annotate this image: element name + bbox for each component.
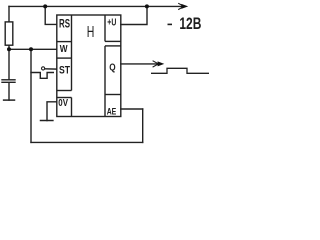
pin field 0V box bbox=[57, 97, 72, 99]
wire capacitor bottom lead bbox=[8, 83, 10, 100]
wire AE output bbox=[121, 108, 143, 110]
wire resistor bottom lead bbox=[8, 45, 10, 49]
wire W line bbox=[9, 48, 57, 50]
pin field +U box bbox=[104, 15, 106, 41]
node top-supply junction bbox=[145, 4, 149, 8]
pushbutton S1 contact bar bbox=[31, 73, 53, 79]
node W-left junction bbox=[7, 47, 11, 51]
ground (0V) bbox=[41, 120, 53, 122]
node W-feedback junction bbox=[29, 47, 33, 51]
svg-text:12В: 12В bbox=[179, 15, 201, 33]
wire top rail bbox=[9, 5, 184, 7]
wire Q output bbox=[121, 63, 159, 65]
svg-text:RS: RS bbox=[59, 17, 70, 31]
wire capacitor top lead bbox=[8, 49, 10, 79]
wire feedback vertical bbox=[30, 49, 32, 142]
wire RS drop bbox=[45, 6, 57, 24]
wire AE feedback right vertical bbox=[142, 109, 144, 142]
ground (capacitor) bbox=[4, 99, 15, 101]
wire +U supply bbox=[121, 6, 147, 24]
svg-text:H: H bbox=[87, 24, 95, 41]
wire 0V to ground bbox=[47, 102, 57, 121]
op IC U1 timer block outline bbox=[57, 15, 121, 117]
pin field Q/AE box bbox=[104, 46, 106, 117]
svg-text:Q: Q bbox=[109, 62, 115, 74]
wire bottom rail bbox=[31, 141, 143, 143]
pushbutton S1 terminal circle bbox=[42, 67, 45, 70]
svg-text:0V: 0V bbox=[58, 98, 68, 109]
wire resistor top lead bbox=[8, 6, 10, 22]
svg-text:ST: ST bbox=[59, 65, 70, 77]
wire ST input bbox=[45, 68, 57, 70]
resistor R1 bbox=[5, 22, 13, 45]
svg-text:AE: AE bbox=[107, 107, 117, 118]
junction dots bbox=[7, 4, 149, 51]
waveform pulse symbol bbox=[151, 68, 209, 73]
arrow Q output bbox=[153, 61, 159, 67]
pin field column left RS/W/ST bbox=[71, 15, 73, 91]
svg-text:+U: +U bbox=[107, 18, 116, 29]
arrow supply output bbox=[178, 3, 184, 9]
svg-text:W: W bbox=[60, 43, 68, 55]
capacitor C1 bbox=[2, 80, 15, 83]
node top-RS junction bbox=[43, 4, 47, 8]
